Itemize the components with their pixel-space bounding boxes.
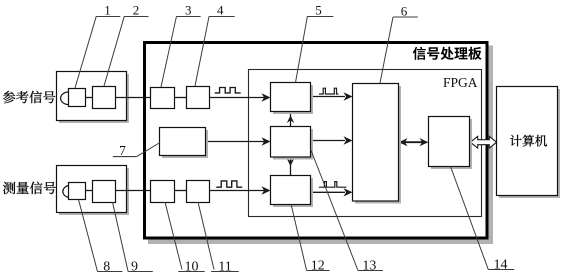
wire arrow: clock block 7 to middle block xyxy=(206,137,271,145)
label 测量信号 xyxy=(3,182,56,195)
pulse waveform symbol after block 11 xyxy=(216,181,242,187)
FPGA label xyxy=(443,75,478,90)
callout 8 xyxy=(79,200,123,275)
computer box 计算机 xyxy=(497,87,561,199)
amplifier block 9 xyxy=(93,181,116,203)
svg-text:11: 11 xyxy=(218,259,231,274)
callout 2 xyxy=(104,3,149,86)
label 计算机 xyxy=(510,135,547,147)
wire: block 10 to block 11 xyxy=(175,190,187,192)
svg-text:9: 9 xyxy=(131,259,138,274)
block 11 xyxy=(187,181,210,203)
callout 9 xyxy=(113,202,153,274)
svg-text:12: 12 xyxy=(311,259,325,274)
wire: measurement sensor box to block 10 xyxy=(116,190,151,192)
callout 5 xyxy=(296,3,334,83)
block 5 xyxy=(271,83,314,115)
photodetector 1 (reference) xyxy=(61,89,86,107)
svg-text:FPGA: FPGA xyxy=(443,75,478,90)
lower block xyxy=(271,176,314,208)
wire: photodetector 1 to amplifier 2 xyxy=(85,97,93,99)
block 4 xyxy=(187,87,210,109)
callout 10 xyxy=(165,202,205,274)
wire arrow: block 4 to block 5 xyxy=(210,93,271,101)
middle block xyxy=(271,127,314,160)
callout 12 xyxy=(291,204,330,274)
double arrow: block 6 to block 14 xyxy=(399,138,429,146)
svg-text:3: 3 xyxy=(185,3,192,18)
callout 7 xyxy=(113,143,160,159)
svg-text:6: 6 xyxy=(401,3,408,18)
hollow double arrow: block 14 to computer xyxy=(470,136,496,148)
wire arrow: block 11 to lower counter block xyxy=(210,186,271,194)
wire arrow: lower block to block 6 xyxy=(311,188,353,196)
svg-text:10: 10 xyxy=(185,259,199,274)
measurement signal sensor box xyxy=(57,166,130,216)
wire: photodetector 8 to amplifier 9 xyxy=(86,190,93,192)
callout 13 xyxy=(311,149,384,274)
svg-text:8: 8 xyxy=(103,259,110,274)
amplifier block 2 xyxy=(93,87,116,109)
block 10 xyxy=(151,181,175,203)
wire arrow: block 5 to block 6 xyxy=(311,92,353,100)
svg-text:1: 1 xyxy=(104,3,111,18)
svg-text:2: 2 xyxy=(133,3,140,18)
svg-text:13: 13 xyxy=(362,259,376,274)
block 6 (FPGA core) xyxy=(353,84,402,204)
block 14 (interface) xyxy=(429,117,473,170)
svg-text:7: 7 xyxy=(119,143,126,158)
block 3 xyxy=(151,88,175,109)
callout 11 xyxy=(198,202,239,274)
wire arrow: middle block to block 6 xyxy=(311,136,353,144)
svg-text:5: 5 xyxy=(315,3,322,18)
callout 14 xyxy=(451,167,515,273)
svg-text:14: 14 xyxy=(494,257,508,272)
signal processing board outer box (信号处理板) xyxy=(145,43,494,245)
pulse waveform symbol between lower block and block 6 xyxy=(319,182,347,188)
wire arrow up: middle block to block 5 xyxy=(287,112,294,127)
label 参考信号 xyxy=(3,91,56,103)
photodetector 8 (measurement) xyxy=(63,183,86,200)
wire: block 3 to block 4 xyxy=(175,97,187,99)
svg-text:4: 4 xyxy=(217,3,224,18)
wire arrow down: middle block to lower block xyxy=(287,157,294,176)
FPGA inner box xyxy=(249,70,482,217)
clock block 7 xyxy=(160,128,209,159)
reference signal sensor box xyxy=(57,72,130,124)
callout 1 xyxy=(75,3,120,88)
pulse waveform symbol after block 4 xyxy=(215,88,241,93)
callout 6 xyxy=(380,3,418,83)
callout 3 xyxy=(161,3,201,87)
callout 4 xyxy=(195,3,235,86)
board title text 信号处理板 xyxy=(413,47,482,60)
pulse waveform symbol between block 5 and block 6 xyxy=(319,88,339,94)
wire: reference sensor box to block 3 xyxy=(116,97,151,99)
